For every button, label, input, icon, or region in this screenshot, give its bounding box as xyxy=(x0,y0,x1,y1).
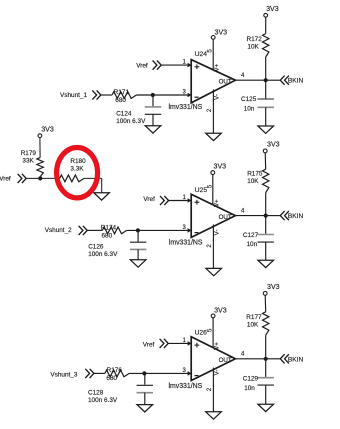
svg-text:Vref: Vref xyxy=(0,175,11,182)
svg-text:680: 680 xyxy=(106,375,117,382)
input arrow pin 1 (U25) xyxy=(188,198,192,203)
power 3V3 (R175) xyxy=(263,141,279,153)
svg-text:R174: R174 xyxy=(101,225,117,232)
port BKIN (circuit 2) xyxy=(266,211,304,220)
pin number 1 (U26) xyxy=(183,338,187,344)
op-amp comparator U24 xyxy=(191,60,235,103)
wire pin 4 OUT of U26 to BKIN node xyxy=(235,358,265,360)
capacitor C129 10n xyxy=(243,359,274,404)
svg-text:lmv331/NS: lmv331/NS xyxy=(169,104,203,111)
wire R171 to pin 3 of U24 xyxy=(136,94,188,96)
label U26 xyxy=(195,330,208,337)
junction node BKIN (circuit 3) xyxy=(264,357,268,361)
input arrow pin 1 (U24) xyxy=(188,63,192,68)
svg-text:100n 6.3V: 100n 6.3V xyxy=(88,397,118,404)
wire Vref to pin 1 of U26 xyxy=(168,342,188,344)
port Vref (input, circuit 1) xyxy=(136,61,161,70)
svg-text:R176: R176 xyxy=(107,367,123,374)
svg-text:680: 680 xyxy=(102,233,113,240)
svg-text:33K: 33K xyxy=(22,157,34,164)
ground (R180) xyxy=(94,193,110,200)
svg-text:OUT: OUT xyxy=(219,78,232,85)
ground (U24 V- pin) xyxy=(206,133,222,140)
svg-text:R180: R180 xyxy=(70,158,86,165)
svg-text:10n: 10n xyxy=(244,105,255,112)
port BKIN (circuit 1) xyxy=(266,76,304,85)
svg-text:V-: V- xyxy=(214,230,221,236)
svg-text:3V3: 3V3 xyxy=(214,306,227,314)
resistor R171 680 xyxy=(112,89,136,104)
svg-text:3V3: 3V3 xyxy=(215,29,228,37)
svg-text:U25: U25 xyxy=(195,187,208,194)
pin number 3 (U25) xyxy=(183,225,187,231)
svg-text:U26: U26 xyxy=(195,330,208,337)
svg-text:Vref: Vref xyxy=(143,341,155,348)
pin label V+ (U26) xyxy=(214,342,221,350)
junction node Vref xyxy=(38,176,42,180)
power 3V3 (R179) xyxy=(38,125,54,137)
junction node BKIN (circuit 2) xyxy=(264,214,268,218)
capacitor C128 100n 6.3V xyxy=(88,373,153,404)
svg-text:3V3: 3V3 xyxy=(266,5,279,13)
pin number 4 (U26) xyxy=(241,352,245,358)
ground (U26 V- pin) xyxy=(206,412,222,419)
svg-text:U24: U24 xyxy=(195,51,208,58)
wire R172 to BKIN node xyxy=(265,57,267,80)
ground (U25 V- pin) xyxy=(206,268,222,275)
wire V+ pin 5 of U26 xyxy=(212,318,214,348)
svg-text:3V3: 3V3 xyxy=(267,283,280,291)
power 3V3 (R177) xyxy=(263,283,279,295)
label U25 xyxy=(195,187,208,194)
svg-text:R171: R171 xyxy=(114,89,130,96)
junction node BKIN (circuit 1) xyxy=(264,78,268,82)
op-amp comparator U25 xyxy=(191,194,235,237)
svg-text:Vshunt_1: Vshunt_1 xyxy=(60,92,87,99)
svg-text:R177: R177 xyxy=(246,314,262,321)
ground (C129) xyxy=(258,404,274,411)
svg-text:100n 6.3V: 100n 6.3V xyxy=(88,251,118,258)
pin label V- (U24) xyxy=(214,94,221,100)
svg-text:lmv331/NS: lmv331/NS xyxy=(169,239,203,246)
svg-text:10K: 10K xyxy=(247,321,259,328)
pin label V- (U25) xyxy=(214,230,221,236)
ground (C126) xyxy=(130,260,146,267)
resistor R175 10K xyxy=(247,169,269,192)
svg-text:C125: C125 xyxy=(241,96,257,103)
svg-text:Vref: Vref xyxy=(143,196,155,203)
capacitor C127 10n xyxy=(243,216,274,261)
wire R177 to BKIN node xyxy=(265,335,267,359)
svg-text:BKIN: BKIN xyxy=(288,78,304,85)
resistor R172 10K xyxy=(247,34,269,57)
wire 3V3 to R179 xyxy=(39,138,41,158)
svg-text:R172: R172 xyxy=(247,36,263,43)
wire V- pin 2 of U24 xyxy=(212,89,214,133)
value lmv331/NS (U24) xyxy=(169,104,203,111)
port Vshunt_3 (input) xyxy=(50,369,94,379)
capacitor C124 100n 6.3V xyxy=(116,95,161,126)
power 3V3 (U24 V+ supply) xyxy=(211,29,227,40)
svg-text:3V3: 3V3 xyxy=(41,125,54,133)
svg-text:10n: 10n xyxy=(244,385,255,392)
pin number 1 (U24) xyxy=(183,60,187,66)
capacitor C125 10n xyxy=(241,80,274,126)
wire 3V3 to R177 xyxy=(264,295,267,312)
svg-text:OUT: OUT xyxy=(219,357,232,364)
capacitor C126 100n 6.3V xyxy=(88,230,146,259)
resistor R179 33K xyxy=(21,150,44,177)
svg-text:OUT: OUT xyxy=(219,214,232,221)
svg-text:lmv331/NS: lmv331/NS xyxy=(169,383,203,390)
svg-text:5: 5 xyxy=(206,49,213,53)
svg-text:Vref: Vref xyxy=(136,62,148,69)
wire V- pin 2 of U25 xyxy=(212,224,214,268)
svg-text:10n: 10n xyxy=(247,241,258,248)
port BKIN (circuit 3) xyxy=(266,354,304,363)
pin number 3 (U24) xyxy=(183,90,187,96)
wire pin 4 OUT of U24 to BKIN node xyxy=(235,79,265,81)
pin number 4 (U25) xyxy=(241,208,245,214)
wire Vref node to R180 xyxy=(40,177,59,179)
input arrow pin 3 (U25) xyxy=(188,228,192,233)
ground (C124) xyxy=(145,126,161,133)
pin number 2 (U24) xyxy=(206,108,213,112)
wire V+ pin 5 of U25 xyxy=(212,175,214,206)
svg-text:C128: C128 xyxy=(88,389,104,396)
wire Vshunt_1 to R171 xyxy=(101,94,112,96)
svg-text:R179: R179 xyxy=(21,150,37,157)
svg-text:680: 680 xyxy=(115,97,126,104)
label U24 xyxy=(195,51,208,58)
wire R176 to pin 3 of U26 xyxy=(129,372,188,374)
svg-text:Vshunt_3: Vshunt_3 xyxy=(50,371,77,378)
wire Vref to pin 1 of U24 xyxy=(161,64,188,66)
svg-text:3V3: 3V3 xyxy=(214,162,227,170)
svg-text:BKIN: BKIN xyxy=(288,357,304,364)
annotation red circle around R180 xyxy=(57,148,98,198)
junction node at C126 xyxy=(136,228,140,232)
pin number 5 (U25) xyxy=(206,184,213,188)
wire Vref port to node xyxy=(26,177,40,179)
wire R175 to BKIN node xyxy=(265,193,267,216)
wire 3V3 to R175 xyxy=(264,153,267,169)
svg-text:100n 6.3V: 100n 6.3V xyxy=(116,118,146,125)
op-amp comparator U26 xyxy=(191,337,235,381)
svg-text:C126: C126 xyxy=(88,244,104,251)
svg-text:10K: 10K xyxy=(247,44,259,51)
svg-text:R175: R175 xyxy=(247,171,263,178)
port Vref (output) xyxy=(0,174,26,183)
pin number 3 (U26) xyxy=(183,368,187,374)
input arrow pin 3 (U24) xyxy=(188,93,192,98)
ground (C128) xyxy=(137,405,153,412)
svg-text:V-: V- xyxy=(214,370,221,376)
power 3V3 (R172) xyxy=(264,5,279,17)
port Vref (input, circuit 3) xyxy=(143,339,168,349)
svg-text:5: 5 xyxy=(206,328,213,332)
svg-text:C127: C127 xyxy=(243,232,259,239)
svg-text:C124: C124 xyxy=(116,111,132,118)
pin label V+ (U25) xyxy=(214,199,221,207)
wire Vshunt_3 to R176 xyxy=(94,372,105,374)
svg-text:C129: C129 xyxy=(243,376,259,383)
ground (C125) xyxy=(258,126,274,133)
svg-text:Vshunt_2: Vshunt_2 xyxy=(45,227,72,234)
wire pin 4 OUT of U25 to BKIN node xyxy=(235,215,265,217)
pin number 2 (U26) xyxy=(206,387,213,391)
wire R174 to pin 3 of U25 xyxy=(127,229,189,231)
power 3V3 (U25 V+ supply) xyxy=(211,162,226,174)
wire 3V3 to R172 xyxy=(265,17,267,33)
resistor R180 3.3K xyxy=(60,158,86,182)
junction node at C128 xyxy=(142,371,146,375)
ground (C127) xyxy=(258,260,274,267)
wire V- pin 2 of U26 xyxy=(212,368,214,412)
svg-text:10K: 10K xyxy=(247,178,259,185)
pin label V- (U26) xyxy=(214,370,221,376)
wire V+ pin 5 of U24 xyxy=(212,39,214,70)
wire Vshunt_2 to R174 xyxy=(87,229,102,231)
port Vshunt_1 (input) xyxy=(60,90,101,99)
resistor R174 680 xyxy=(101,225,127,240)
pin number 4 (U24) xyxy=(241,73,245,79)
value lmv331/NS (U26) xyxy=(169,383,203,390)
input arrow pin 1 (U26) xyxy=(188,341,192,346)
svg-text:BKIN: BKIN xyxy=(288,213,304,220)
pin number 1 (U25) xyxy=(183,195,187,201)
input arrow pin 3 (U26) xyxy=(188,371,192,376)
svg-text:5: 5 xyxy=(206,184,213,188)
resistor R177 10K xyxy=(246,312,269,335)
junction node at C124 xyxy=(151,93,155,97)
port Vref (input, circuit 2) xyxy=(143,196,168,205)
wire Vref to pin 1 of U25 xyxy=(169,200,189,202)
pin number 5 (U24) xyxy=(206,49,213,53)
port Vshunt_2 (input) xyxy=(45,226,87,235)
resistor R176 680 xyxy=(105,367,129,382)
pin number 2 (U25) xyxy=(206,244,213,248)
svg-text:3V3: 3V3 xyxy=(267,141,280,149)
pin label V+ (U24) xyxy=(214,63,221,71)
power 3V3 (U26 V+ supply) xyxy=(211,306,227,317)
value lmv331/NS (U25) xyxy=(169,239,203,246)
svg-text:V-: V- xyxy=(214,94,221,100)
wire R180 to ground xyxy=(84,178,102,192)
svg-text:3.3K: 3.3K xyxy=(70,166,84,173)
wire R179 to Vref node xyxy=(39,177,41,179)
pin number 5 (U26) xyxy=(206,328,213,332)
